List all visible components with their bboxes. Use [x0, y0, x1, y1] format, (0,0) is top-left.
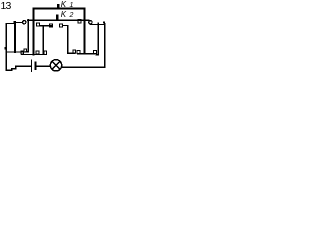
wire battery to lamp — [36, 65, 51, 67]
wire H2 — [63, 25, 68, 27]
terminal clamp cell D bottom hook — [93, 50, 96, 53]
cell A right plate — [14, 22, 16, 52]
cell D left wall — [96, 23, 98, 55]
wire H1 — [40, 25, 52, 27]
right outer wire — [62, 24, 105, 68]
nub on left wire — [5, 47, 6, 49]
bottom rail right — [78, 53, 94, 55]
wire W1 top bus — [34, 8, 85, 10]
terminal clamp rail middle — [36, 51, 39, 54]
switch K1 tick — [57, 4, 59, 9]
wire W2 second bus — [28, 19, 89, 21]
terminal clamp V3 bottom — [73, 50, 76, 53]
cell B top line — [16, 22, 22, 24]
svg-text:1: 1 — [70, 2, 74, 9]
terminal clamp H2 start — [59, 24, 62, 27]
terminal clamp rail left end — [21, 51, 24, 54]
cell A bottom — [6, 51, 15, 53]
cell D top — [98, 24, 104, 26]
terminal circle W2 right end — [89, 21, 92, 24]
cell B right plate — [26, 20, 28, 52]
terminal clamp under W2 at V1 — [36, 23, 39, 26]
cell A top line — [6, 23, 14, 25]
svg-text:K: K — [61, 10, 67, 19]
cell D top terminal tick — [103, 21, 105, 23]
switch K2 tick — [56, 15, 59, 20]
wire V2 — [42, 26, 44, 55]
bottom rail left — [22, 53, 45, 55]
terminal clamp H1 end — [49, 24, 52, 27]
wire V3 — [68, 26, 75, 54]
svg-text:13: 13 — [1, 0, 12, 12]
lamp X — [52, 61, 60, 69]
cell B bottom terminal clamp — [24, 49, 27, 52]
terminal clamp rail right left-end — [77, 51, 80, 54]
battery long plate — [30, 60, 32, 71]
battery short plate — [34, 62, 36, 68]
cell A top terminal tick — [13, 21, 15, 23]
cell A left plate and outer wire — [6, 24, 31, 71]
terminal clamp rail right end — [44, 51, 47, 54]
wire V4 right vertical drop — [84, 9, 86, 54]
svg-text:K: K — [61, 0, 67, 9]
cell B left plate — [16, 51, 25, 53]
wire to cell D top — [91, 24, 99, 26]
svg-text:2: 2 — [69, 12, 74, 19]
wire V1 left vertical drop — [33, 9, 35, 55]
terminal clamp on W2 before V4 — [78, 20, 81, 23]
lamp circle — [50, 60, 61, 71]
cell B top terminal circle — [23, 21, 26, 24]
